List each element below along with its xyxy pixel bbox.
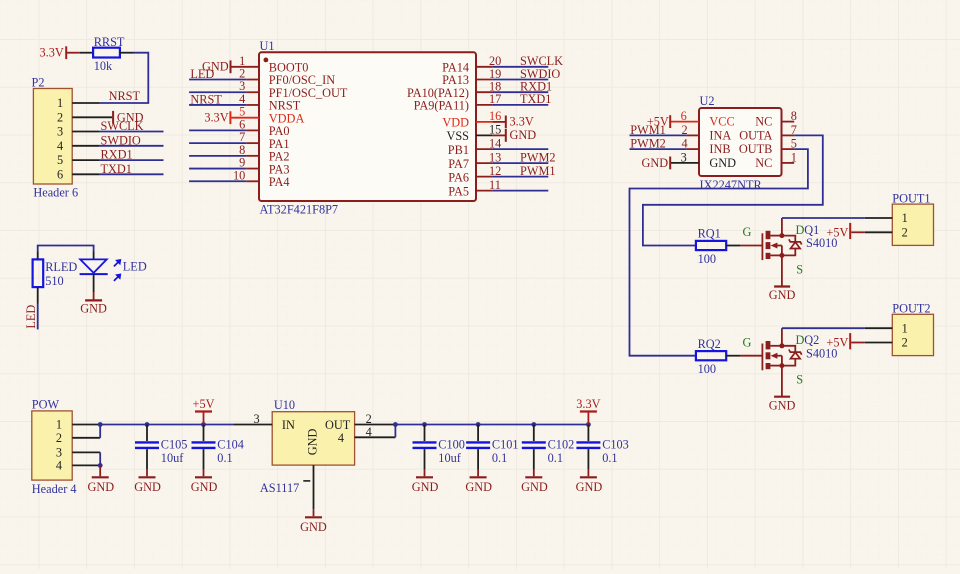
capacitor C100 (413, 438, 465, 465)
wire U1 pin11 (492, 190, 548, 192)
svg-text:3.3V: 3.3V (576, 397, 600, 411)
svg-text:10k: 10k (94, 59, 113, 73)
svg-text:IX2247NTR: IX2247NTR (700, 178, 763, 192)
svg-text:OUTB: OUTB (739, 142, 772, 156)
svg-text:+5V: +5V (193, 397, 215, 411)
pin 6 U1 (PA0) (239, 117, 289, 138)
capacitor C105 (135, 438, 187, 465)
svg-text:NRST: NRST (109, 89, 141, 103)
svg-text:Q2: Q2 (804, 333, 819, 347)
svg-text:GND: GND (306, 428, 320, 455)
svg-text:C101: C101 (492, 438, 519, 452)
svg-text:GND: GND (769, 288, 796, 302)
wire OUTA to RQ1 (643, 135, 823, 245)
svg-text:2: 2 (902, 336, 908, 350)
svg-text:3.3V: 3.3V (204, 110, 228, 124)
pin 19 U1 (PA13) (442, 67, 501, 87)
svg-text:100: 100 (698, 252, 716, 266)
junction rail at C105 (145, 422, 150, 427)
ground GND (U1 pin15) (506, 128, 536, 142)
wire rail to C105 (146, 425, 148, 442)
pin 13 U1 (PA7) (448, 150, 501, 170)
connector POUT2 (851, 302, 933, 356)
wire net TXD1 (492, 104, 548, 106)
wire LED cathode to GND (93, 274, 95, 292)
wire U10 pin4 to pin2 (394, 425, 396, 438)
svg-text:INA: INA (709, 129, 731, 143)
svg-text:10uf: 10uf (438, 451, 461, 465)
svg-text:U2: U2 (700, 94, 715, 108)
svg-text:GND: GND (191, 480, 218, 494)
svg-text:NRST: NRST (190, 93, 222, 107)
pin 7 U2 (OUTA) (739, 123, 797, 143)
wire U1 pin3 (189, 91, 246, 93)
svg-text:4: 4 (57, 139, 63, 153)
power port 3.3V (C103) (576, 397, 600, 425)
svg-text:GND: GND (576, 480, 603, 494)
wire net PWM2 (492, 162, 548, 164)
svg-text:PWM1: PWM1 (630, 123, 666, 137)
ground GND (POW) (87, 465, 114, 493)
svg-text:PA7: PA7 (448, 157, 469, 171)
svg-text:GND: GND (87, 480, 114, 494)
svg-text:LED: LED (24, 305, 38, 329)
wire rail to C100 (424, 425, 426, 442)
pin 8 U2 (NC) (755, 109, 797, 129)
wire net PWM1 (630, 134, 687, 136)
svg-text:100: 100 (698, 362, 716, 376)
svg-text:LED: LED (190, 67, 214, 81)
pin 4 U10 (OUT2) (355, 425, 396, 439)
wire +5V rail (100, 424, 234, 426)
pin 17 U1 (PA9(PA11)) (414, 92, 502, 112)
svg-text:AS1117: AS1117 (260, 481, 299, 495)
wire rail to C103 (587, 425, 589, 442)
svg-text:G: G (743, 225, 752, 239)
regulator U10 AS1117 (260, 398, 355, 495)
svg-text:OUTA: OUTA (739, 129, 772, 143)
junction rail at C103 (586, 422, 591, 427)
svg-text:2: 2 (56, 431, 62, 445)
wire RXD1 (100, 159, 164, 161)
svg-text:0.1: 0.1 (217, 451, 232, 465)
resistor RQ2 (696, 337, 726, 376)
connector POW (Header 4) (32, 398, 100, 497)
wire U1 pin6 (189, 129, 246, 131)
svg-text:PWM2: PWM2 (630, 137, 666, 151)
svg-text:VCC: VCC (709, 115, 734, 129)
svg-text:NC: NC (755, 156, 772, 170)
svg-text:1: 1 (902, 321, 908, 335)
wire U1 pin7 (189, 142, 246, 144)
svg-text:+5V: +5V (826, 336, 848, 350)
svg-text:Header 4: Header 4 (32, 482, 77, 496)
pin 1 POUT1 (865, 217, 893, 219)
wire rail to C101 (477, 425, 479, 442)
wire C100 to GND (424, 449, 426, 470)
svg-text:LED: LED (123, 259, 147, 273)
svg-text:C104: C104 (217, 438, 244, 452)
ground GND (Q1 source) (769, 287, 796, 303)
pin 11 U1 (PA5) (448, 178, 501, 198)
pin 16 U1 (VDD) (442, 109, 505, 129)
pin 2 U2 (INA) (681, 123, 731, 143)
power port +5V (POUT2) (826, 333, 850, 350)
svg-text:PB1: PB1 (448, 143, 469, 157)
wire net SWCLK (492, 66, 548, 68)
svg-text:RLED: RLED (45, 260, 77, 274)
junction rail at C101 (476, 422, 481, 427)
wire C105 to GND (146, 449, 148, 470)
svg-text:10uf: 10uf (161, 451, 184, 465)
junction rail at C104 (201, 422, 206, 427)
wire RQ1 to gate (726, 245, 740, 247)
svg-text:4: 4 (56, 458, 62, 472)
resistor RLED 510 (33, 259, 78, 287)
svg-text:RQ2: RQ2 (698, 337, 721, 351)
wire U1 pin9 (189, 168, 246, 170)
svg-text:0.1: 0.1 (492, 451, 507, 465)
svg-text:G: G (743, 335, 752, 349)
wire U1 pin8 (189, 155, 246, 157)
svg-text:RRST: RRST (94, 35, 125, 49)
svg-text:GND: GND (521, 480, 548, 494)
svg-text:C103: C103 (602, 438, 629, 452)
pin 15 U1 (VSS) (446, 123, 505, 143)
pin 1 U2 (NC) (755, 151, 797, 171)
pin 3 U1 (PF1/OSC_OUT) (239, 79, 348, 100)
wire OUTB to RQ2 (630, 149, 808, 356)
power port 3.3V (U1 pin16) (506, 114, 534, 128)
pin 4 U2 (INB) (681, 137, 730, 157)
pin 18 U1 (PA10(PA12)) (407, 80, 501, 100)
svg-text:PA6: PA6 (448, 170, 469, 184)
svg-text:GND: GND (510, 128, 537, 142)
pin 12 U1 (PA6) (448, 164, 501, 184)
svg-text:RXD1: RXD1 (101, 148, 133, 162)
svg-text:4: 4 (338, 431, 344, 445)
svg-text:10: 10 (233, 168, 245, 182)
connector P2 (Header 6) (32, 76, 113, 200)
capacitor C103 (576, 438, 628, 465)
pin 8 U1 (PA2) (239, 143, 289, 164)
svg-text:C102: C102 (548, 438, 575, 452)
ground GND (P2 pin2) (113, 110, 144, 124)
svg-text:1: 1 (57, 96, 63, 110)
svg-text:SWDIO: SWDIO (101, 133, 141, 147)
wire RRST to P2 pin1 (net NRST) (120, 52, 134, 54)
wire U1 pin2 (net LED) (189, 79, 246, 81)
wire U1 pin14 (492, 148, 548, 150)
wire RQ2 to gate (726, 355, 740, 357)
wire SWCLK (100, 131, 164, 133)
pin 2 POUT1 (865, 231, 893, 233)
wire U1 pin10 (189, 180, 246, 182)
op-amp U2 IX2247NTR body (699, 94, 782, 192)
svg-text:C105: C105 (161, 438, 188, 452)
power port +5V (C104) (193, 397, 215, 425)
svg-text:POUT1: POUT1 (892, 192, 930, 206)
wire 3.3V rail (395, 424, 588, 426)
ground GND (U2 pin3) (642, 156, 671, 170)
resistor RQ1 (696, 227, 726, 266)
wire C103 to GND (587, 449, 589, 470)
connector POUT1 (851, 192, 933, 246)
power port +5V (U2 pin6) (647, 115, 670, 129)
ground GND (C103) (576, 477, 603, 494)
wire 3.3V to RRST (66, 52, 80, 54)
svg-text:PWM1: PWM1 (520, 164, 556, 178)
svg-text:VDD: VDD (442, 116, 469, 130)
pin 4 U1 (NRST) (239, 92, 301, 113)
svg-text:3.3V: 3.3V (40, 46, 64, 60)
ground GND (C102) (521, 477, 548, 494)
svg-text:0.1: 0.1 (548, 451, 563, 465)
wire C102 to GND (533, 449, 535, 470)
wire drain to POUT1 pin1 (782, 217, 865, 219)
pin 1 U1 (BOOT0) (231, 54, 308, 75)
svg-text:TXD1: TXD1 (101, 162, 132, 176)
pin 20 U1 (PA14) (442, 54, 501, 74)
power port +5V (POUT1) (826, 223, 850, 240)
diode D LED (80, 259, 147, 281)
wire U1 pin4 (net NRST) (189, 104, 246, 106)
wire rail to C102 (533, 425, 535, 442)
pin 1 POUT2 (865, 327, 893, 329)
wire SWDIO (100, 145, 164, 147)
svg-text:POW: POW (32, 398, 60, 412)
wire net RXD1 (492, 91, 548, 93)
junction rail at C102 (531, 422, 536, 427)
pin 7 U1 (PA1) (239, 130, 289, 151)
junction rail at C100 (422, 422, 427, 427)
pin 1 U10 (GND) (303, 465, 313, 509)
ground GND (C100) (412, 477, 439, 494)
ground GND (Q2 source) (769, 397, 796, 413)
ground GND (C105) (134, 477, 161, 494)
svg-text:S: S (796, 262, 803, 276)
pin 10 U1 (PA4) (233, 168, 290, 189)
svg-text:Q1: Q1 (804, 223, 819, 237)
svg-text:Header 6: Header 6 (33, 186, 78, 200)
svg-text:GND: GND (465, 480, 492, 494)
svg-text:1: 1 (56, 418, 62, 432)
wire net SWDIO (492, 79, 548, 81)
svg-text:3: 3 (57, 125, 63, 139)
svg-text:TXD1: TXD1 (520, 92, 551, 106)
ground GND (U10) (300, 509, 327, 534)
wire net PWM1 (492, 176, 548, 178)
svg-text:5: 5 (57, 153, 63, 167)
wire POW pin2 to pin1 (99, 425, 101, 438)
svg-text:D: D (796, 333, 805, 347)
svg-text:0.1: 0.1 (602, 451, 617, 465)
pin 2 U10 (OUT) (355, 412, 396, 426)
svg-text:PA5: PA5 (448, 184, 469, 198)
svg-text:PA4: PA4 (269, 175, 290, 189)
wire C104 to GND (203, 449, 205, 470)
svg-text:PA9(PA11): PA9(PA11) (414, 99, 469, 113)
capacitor C102 (522, 438, 574, 465)
svg-text:510: 510 (45, 274, 63, 288)
svg-text:GND: GND (412, 480, 439, 494)
pin 5 U1 (VDDA) (231, 105, 304, 126)
ground GND (LED) (80, 300, 107, 315)
svg-text:U1: U1 (260, 39, 275, 53)
wire TXD1 (100, 173, 164, 175)
pin 5 U2 (OUTB) (739, 137, 797, 157)
svg-text:INB: INB (709, 142, 730, 156)
wire net PWM2 (630, 148, 687, 150)
svg-text:U10: U10 (274, 398, 295, 412)
capacitor C104 (192, 438, 244, 465)
pin 3 U10 (IN) (234, 412, 272, 426)
svg-text:PWM2: PWM2 (520, 150, 556, 164)
pin 3 U2 (GND) (671, 151, 736, 171)
junction POW pin4 (98, 463, 103, 468)
pin 14 U1 (PB1) (448, 136, 502, 156)
svg-text:NC: NC (755, 115, 772, 129)
pin 2 U1 (PF0/OSC_IN) (239, 67, 335, 88)
svg-text:SWCLK: SWCLK (101, 119, 144, 133)
wire drain to POUT2 pin1 (782, 327, 865, 329)
svg-text:GND: GND (80, 302, 107, 316)
svg-text:C100: C100 (438, 438, 465, 452)
power port 3.3V (U1 pin5) (204, 110, 230, 124)
wire RLED top to LED anode (38, 246, 94, 252)
transistor Q2 S4010 (762, 328, 801, 396)
svg-text:P2: P2 (32, 76, 45, 90)
svg-text:6: 6 (57, 167, 63, 181)
svg-text:S: S (796, 373, 803, 387)
wire rail to C104 (203, 425, 205, 442)
svg-text:POUT2: POUT2 (892, 302, 930, 316)
svg-text:RQ1: RQ1 (698, 227, 721, 241)
svg-text:GND: GND (642, 156, 669, 170)
power port 3.3V (RRST) (40, 46, 67, 60)
svg-text:2: 2 (902, 225, 908, 239)
ground GND (C101) (465, 477, 492, 494)
svg-text:3: 3 (56, 445, 62, 459)
junction U10 OUT (393, 422, 398, 427)
svg-text:IN: IN (282, 418, 295, 432)
pin 9 U1 (PA3) (239, 156, 289, 177)
wire C101 to GND (477, 449, 479, 470)
svg-text:3.3V: 3.3V (510, 114, 534, 128)
svg-text:AT32F421F8P7: AT32F421F8P7 (260, 203, 339, 217)
pin 2 POUT2 (865, 342, 893, 344)
wire POW pin3 to pin4 (99, 452, 101, 465)
svg-text:1: 1 (902, 211, 908, 225)
svg-text:GND: GND (300, 520, 327, 534)
svg-text:GND: GND (709, 156, 736, 170)
pin 6 U2 (VCC) (671, 109, 735, 129)
svg-text:GND: GND (769, 398, 796, 412)
resistor RRST (93, 35, 125, 73)
svg-text:D: D (796, 223, 805, 237)
wire RLED bottom (net LED) (37, 287, 39, 303)
svg-text:2: 2 (57, 110, 63, 124)
capacitor C101 (466, 438, 518, 465)
ground GND (U1 pin1) (202, 59, 231, 73)
transistor Q1 S4010 (762, 218, 801, 286)
junction POW pin1 (98, 422, 103, 427)
svg-text:+5V: +5V (826, 225, 848, 239)
svg-text:VSS: VSS (446, 129, 469, 143)
ground GND (C104) (191, 477, 218, 494)
op-amp U1 AT32F421F8P7 body (259, 39, 476, 216)
svg-text:GND: GND (134, 480, 161, 494)
